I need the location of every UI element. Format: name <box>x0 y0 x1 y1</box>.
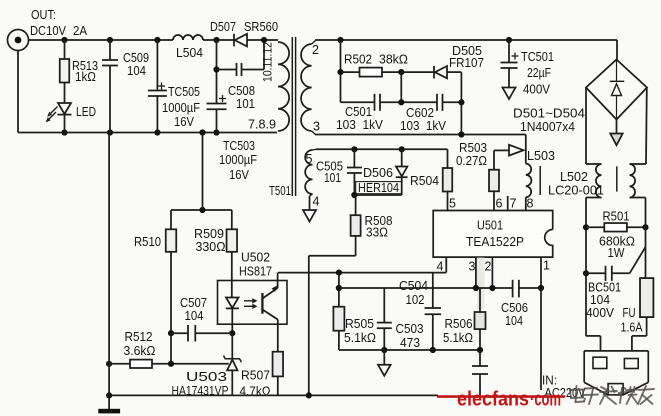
svg-text:104: 104 <box>127 64 146 78</box>
svg-text:U503: U503 <box>186 369 227 384</box>
svg-text:L503: L503 <box>527 148 555 163</box>
svg-text:1.6A: 1.6A <box>621 321 644 335</box>
svg-text:TC503: TC503 <box>223 139 255 153</box>
svg-text:7: 7 <box>510 197 517 211</box>
svg-text:C509: C509 <box>123 51 149 65</box>
svg-text:38kΩ: 38kΩ <box>379 52 408 67</box>
svg-text:104: 104 <box>505 314 523 328</box>
svg-text:SR560: SR560 <box>244 19 278 34</box>
svg-text:103 1kV: 103 1kV <box>336 118 384 132</box>
svg-text:10.11.12: 10.11.12 <box>261 42 275 82</box>
svg-text:16V: 16V <box>174 115 195 129</box>
svg-text:T501: T501 <box>269 184 291 198</box>
svg-text:C503: C503 <box>396 321 424 336</box>
svg-text:3.6kΩ: 3.6kΩ <box>124 343 156 358</box>
svg-text:·com: ·com <box>530 389 561 411</box>
svg-text:R505: R505 <box>345 316 374 331</box>
svg-text:5.1kΩ: 5.1kΩ <box>443 330 473 345</box>
svg-text:R502: R502 <box>344 52 372 67</box>
svg-text:1000µF: 1000µF <box>219 153 257 167</box>
svg-text:C504: C504 <box>399 278 428 293</box>
svg-text:22µF: 22µF <box>527 66 551 80</box>
svg-text:R510: R510 <box>134 234 161 249</box>
svg-text:C508: C508 <box>228 84 255 98</box>
svg-text:4: 4 <box>437 260 444 274</box>
svg-text:FU: FU <box>623 306 636 320</box>
svg-text:LED: LED <box>76 105 96 119</box>
svg-text:5: 5 <box>449 197 456 211</box>
svg-text:1kΩ: 1kΩ <box>75 70 96 84</box>
svg-text:C602: C602 <box>406 106 434 120</box>
svg-text:5: 5 <box>306 152 313 166</box>
svg-text:L502: L502 <box>560 169 588 184</box>
svg-text:3: 3 <box>313 120 320 134</box>
svg-text:3: 3 <box>469 260 476 274</box>
svg-text:5.1kΩ: 5.1kΩ <box>344 330 376 345</box>
svg-text:TC501: TC501 <box>521 50 554 64</box>
svg-text:R501: R501 <box>603 209 630 224</box>
svg-text:101: 101 <box>324 171 341 185</box>
svg-text:7.8.9: 7.8.9 <box>248 118 276 132</box>
svg-text:103 1kV: 103 1kV <box>400 119 447 133</box>
svg-text:C501: C501 <box>345 105 372 119</box>
svg-text:33Ω: 33Ω <box>366 225 388 240</box>
svg-text:102: 102 <box>406 292 425 307</box>
svg-text:104: 104 <box>590 293 610 307</box>
svg-text:1000µF: 1000µF <box>162 101 200 115</box>
svg-text:0.27Ω: 0.27Ω <box>456 153 487 168</box>
svg-text:104: 104 <box>185 308 204 323</box>
svg-text:2A: 2A <box>73 23 87 38</box>
svg-text:HS817: HS817 <box>239 264 272 279</box>
svg-text:473: 473 <box>400 335 420 350</box>
svg-text:400V: 400V <box>586 306 615 320</box>
svg-text:U502: U502 <box>241 250 270 265</box>
svg-text:6: 6 <box>496 197 503 211</box>
svg-text:R507: R507 <box>241 368 270 383</box>
svg-text:1: 1 <box>543 259 550 273</box>
svg-text:1W: 1W <box>608 246 625 260</box>
svg-text:D507: D507 <box>210 19 236 34</box>
svg-text:R504: R504 <box>410 173 439 188</box>
svg-text:16V: 16V <box>229 168 250 182</box>
svg-text:C506: C506 <box>501 301 528 315</box>
svg-text:1N4007x4: 1N4007x4 <box>520 120 575 134</box>
svg-text:330Ω: 330Ω <box>196 239 226 254</box>
svg-text:TEA1522P: TEA1522P <box>466 235 524 249</box>
svg-text:2: 2 <box>312 43 319 57</box>
svg-text:D506: D506 <box>363 166 393 180</box>
svg-text:FR107: FR107 <box>449 55 484 70</box>
svg-text:TC505: TC505 <box>168 85 200 99</box>
svg-text:U501: U501 <box>477 219 503 233</box>
svg-text:L504: L504 <box>176 45 203 60</box>
svg-text:D501~D504: D501~D504 <box>513 107 585 121</box>
svg-text:101: 101 <box>236 97 255 111</box>
svg-text:4: 4 <box>313 195 320 209</box>
svg-text:HER104: HER104 <box>358 181 399 195</box>
svg-text:LC20-001: LC20-001 <box>548 184 604 198</box>
svg-text:DC10V: DC10V <box>30 23 66 38</box>
svg-text:elecfans: elecfans <box>457 389 529 411</box>
svg-text:8: 8 <box>527 197 534 211</box>
svg-text:400V: 400V <box>523 83 551 97</box>
svg-text:R506: R506 <box>445 316 473 331</box>
svg-text:2: 2 <box>485 260 492 274</box>
svg-text:OUT:: OUT: <box>31 7 56 22</box>
svg-text:R512: R512 <box>125 329 153 344</box>
